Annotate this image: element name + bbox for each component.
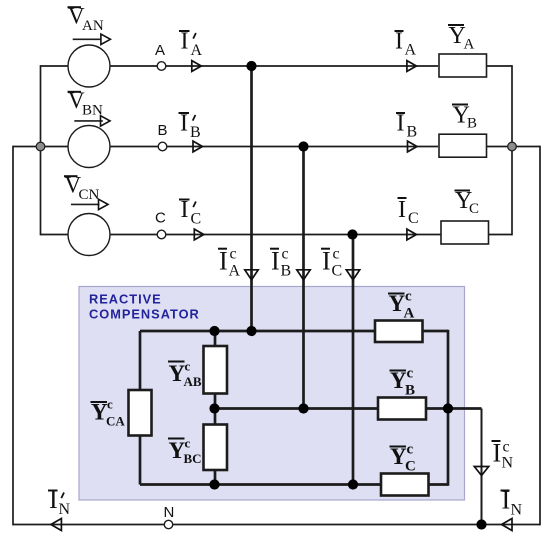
svg-text:I: I — [180, 111, 188, 137]
svg-text:BC: BC — [184, 451, 202, 466]
svg-text:C: C — [405, 459, 416, 475]
svg-text:B: B — [190, 124, 201, 141]
svg-text:c: c — [407, 366, 414, 382]
svg-text:A: A — [155, 42, 165, 59]
svg-text:c: c — [185, 436, 191, 451]
svg-text:B: B — [281, 263, 292, 280]
svg-text:A: A — [191, 42, 203, 59]
svg-text:I: I — [493, 439, 502, 468]
svg-text:COMPENSATOR: COMPENSATOR — [89, 307, 200, 322]
svg-text:REACTIVE: REACTIVE — [89, 292, 162, 307]
svg-text:c: c — [333, 246, 340, 263]
svg-text:c: c — [230, 246, 237, 263]
svg-text:B: B — [405, 383, 415, 399]
svg-text:B: B — [407, 124, 418, 141]
svg-text:A: A — [405, 42, 417, 59]
svg-text:I: I — [395, 28, 403, 54]
svg-text:CN: CN — [79, 187, 100, 203]
svg-text:CA: CA — [106, 414, 125, 429]
svg-text:c: c — [503, 439, 510, 456]
svg-text:c: c — [185, 359, 191, 374]
svg-text:B: B — [467, 116, 477, 132]
svg-text:c: c — [107, 397, 113, 412]
svg-text:N: N — [59, 501, 71, 518]
svg-text:I: I — [398, 197, 406, 223]
svg-text:B: B — [158, 122, 168, 139]
svg-text:I: I — [271, 247, 280, 276]
svg-text:I: I — [322, 247, 331, 276]
svg-text:c: c — [282, 246, 289, 263]
svg-text:C: C — [469, 201, 479, 217]
svg-text:N: N — [511, 502, 523, 519]
svg-text:N: N — [502, 455, 514, 472]
svg-text:I: I — [219, 247, 228, 276]
svg-text:c: c — [405, 289, 412, 305]
svg-text:AN: AN — [82, 18, 104, 34]
svg-text:I: I — [181, 29, 189, 55]
svg-text:A: A — [464, 37, 475, 53]
svg-text:C: C — [408, 210, 419, 227]
svg-text:AB: AB — [184, 374, 202, 389]
svg-text:N: N — [164, 504, 175, 521]
svg-text:c: c — [407, 442, 414, 458]
svg-text:A: A — [229, 263, 241, 280]
svg-text:BN: BN — [82, 103, 103, 119]
svg-text:C: C — [191, 211, 202, 228]
svg-text:C: C — [332, 263, 343, 280]
svg-text:I: I — [397, 111, 405, 137]
svg-text:C: C — [155, 210, 166, 227]
svg-text:I: I — [181, 197, 189, 223]
svg-text:A: A — [404, 306, 415, 322]
svg-text:I: I — [49, 485, 58, 514]
